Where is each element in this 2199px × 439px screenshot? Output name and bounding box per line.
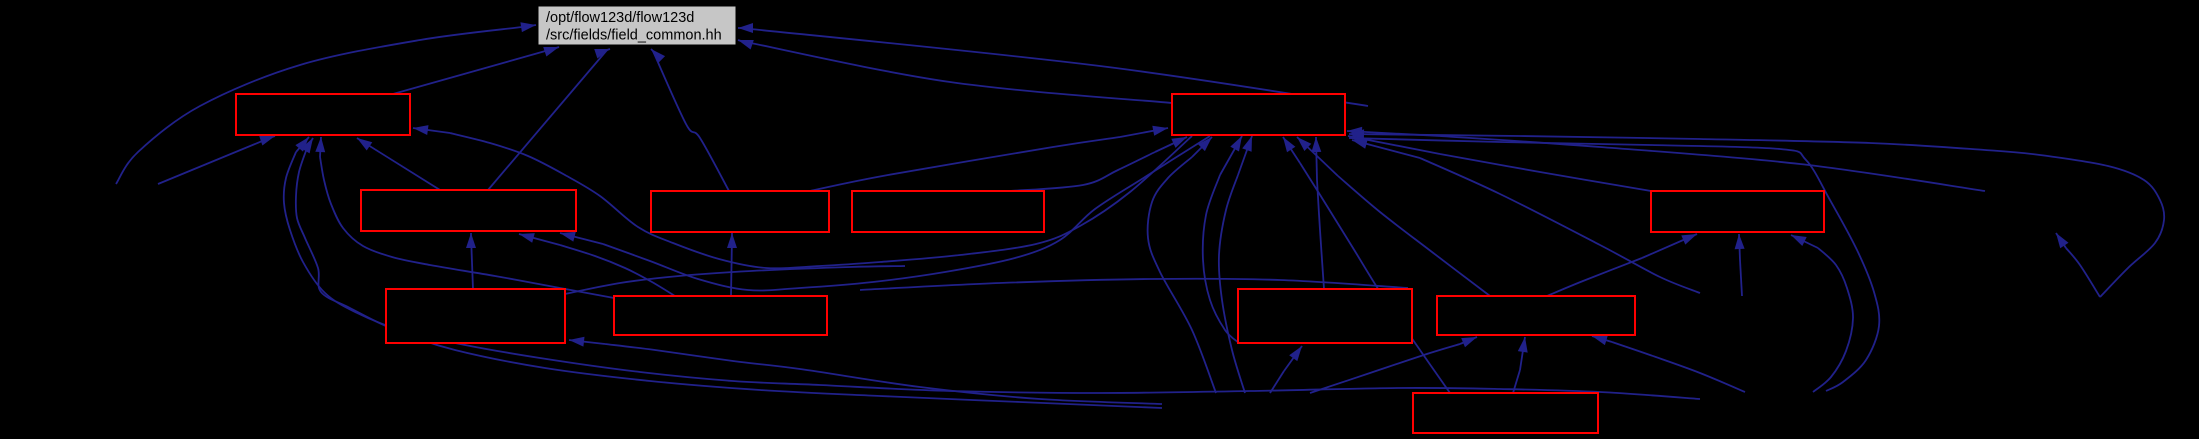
svg-text:/src/fields/field_common.hh: /src/fields/field_common.hh: [546, 28, 722, 44]
svg-text:/opt/flow123d/flow123d: /opt/flow123d/flow123d: [546, 10, 694, 26]
